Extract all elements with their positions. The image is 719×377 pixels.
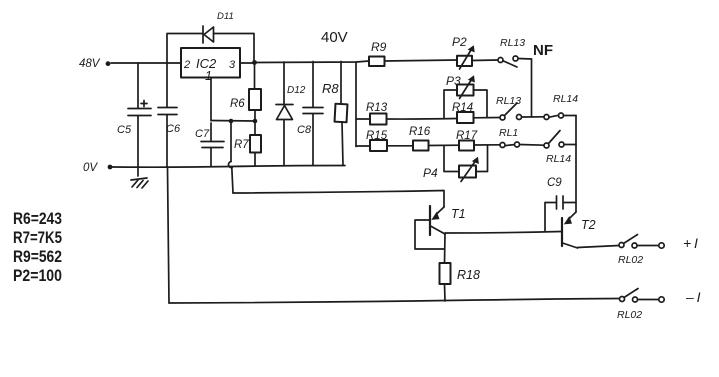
node 48V terminal [106, 61, 111, 66]
wire R16 to R17 [429, 144, 460, 146]
svg-text:R18: R18 [457, 268, 480, 282]
svg-text:P3: P3 [446, 74, 461, 88]
wire R17 to RL1 [474, 144, 500, 146]
node adj junction [229, 119, 234, 124]
relay contact RL14 row3 [544, 143, 549, 148]
svg-text:40V: 40V [321, 29, 348, 46]
svg-text:D12: D12 [287, 85, 306, 96]
svg-text:48V: 48V [79, 58, 101, 70]
relay contact RL02 top [619, 243, 624, 248]
svg-text:RL02: RL02 [618, 254, 643, 266]
wire R13 to R14 [387, 118, 458, 121]
wire P2 to RL13 contact [472, 59, 498, 62]
wire IC2 pin1 down [210, 78, 212, 121]
node R6 R7 junction [253, 119, 258, 124]
relay contact RL13 row1 [498, 58, 503, 63]
wire IC2 output to junction [240, 62, 254, 64]
wire bottom rail [169, 299, 620, 304]
svg-text:RL13: RL13 [500, 37, 525, 49]
capacitor C5 [137, 63, 139, 108]
potentiometer P3 loop [444, 90, 457, 118]
resistor R13 [370, 114, 387, 125]
wire RL13 to RL14 row2 [522, 116, 544, 118]
node terminal -I [659, 297, 664, 302]
svg-text:+ I: + I [683, 235, 698, 251]
svg-text:1: 1 [205, 69, 212, 83]
wire row3 left [356, 145, 370, 147]
potentiometer P4 loop [444, 146, 459, 172]
svg-text:RL1: RL1 [499, 127, 518, 139]
svg-text:R16: R16 [409, 126, 431, 138]
svg-text:C5: C5 [117, 124, 132, 136]
wire D11 left branch [167, 34, 203, 63]
svg-text:– I: – I [685, 289, 701, 305]
node 0V terminal [108, 165, 113, 170]
svg-text:R7=7K5: R7=7K5 [13, 229, 62, 247]
svg-text:RL13: RL13 [496, 95, 521, 107]
svg-text:R6: R6 [230, 98, 245, 110]
svg-text:R6=243: R6=243 [13, 210, 62, 228]
wire row2 left [356, 118, 370, 120]
wire adj link [211, 120, 255, 123]
svg-text:R7: R7 [234, 139, 249, 151]
wire RL14 row3 to right vertical [564, 144, 576, 146]
transistor T2 [569, 212, 576, 219]
wire T1 emitter feed [233, 191, 444, 208]
svg-text:C8: C8 [297, 124, 312, 136]
svg-text:R17: R17 [456, 130, 478, 142]
regulator IC2 [181, 48, 240, 78]
svg-text:P2=100: P2=100 [13, 267, 62, 285]
wire T2 collector to RL02 [578, 246, 620, 248]
svg-text:P2: P2 [452, 35, 467, 49]
node terminal +I [659, 243, 664, 248]
wire mid-section left vertical [355, 62, 357, 147]
svg-text:C9: C9 [547, 177, 562, 189]
wire R14 to RL13 row2 [474, 117, 501, 119]
svg-text:R8: R8 [322, 81, 339, 96]
diode D12 [283, 62, 285, 104]
svg-text:D11: D11 [217, 11, 234, 22]
svg-text:R15: R15 [366, 130, 388, 142]
capacitor C9 [545, 203, 556, 231]
resistor R16 [413, 141, 429, 151]
capacitor C6 [166, 64, 168, 107]
svg-text:RL14: RL14 [546, 153, 571, 165]
resistor R6 [254, 65, 256, 89]
wire crossing hop [230, 123, 232, 162]
svg-text:RL14: RL14 [553, 93, 578, 105]
wire right vertical down to T2 [575, 116, 577, 213]
wire NF corner down [531, 59, 533, 117]
resistor R7 [254, 123, 256, 135]
relay contact RL02 bottom [620, 297, 625, 302]
resistor R8 [340, 62, 342, 105]
svg-text:RL02: RL02 [617, 309, 642, 321]
resistor R17 [459, 141, 474, 151]
potentiometer P2 [457, 56, 472, 66]
wire R9 to P2 [385, 60, 458, 61]
wire 0V rail [112, 166, 345, 168]
ground [137, 167, 139, 176]
svg-text:2: 2 [183, 59, 190, 71]
resistor R9 [369, 57, 385, 67]
svg-text:R13: R13 [366, 102, 388, 114]
relay contact RL1 [500, 143, 505, 148]
wire left drop to bottom rail [168, 168, 170, 303]
wire D11 to output junction [214, 34, 255, 62]
svg-text:3: 3 [229, 59, 236, 71]
wire RL13 to NF corner [519, 58, 532, 61]
svg-text:P4: P4 [423, 166, 438, 180]
svg-text:R9=562: R9=562 [13, 248, 62, 266]
wire R15 to R16 [387, 145, 413, 147]
svg-text:R14: R14 [452, 102, 473, 114]
svg-text:T1: T1 [451, 207, 466, 221]
relay contact RL13 row2 [500, 115, 505, 120]
transistor T1 [437, 207, 444, 214]
wire T2 base from T1 [445, 232, 561, 234]
wire top rail to R9 [254, 61, 369, 63]
wire 48V rail to IC2 [111, 62, 181, 64]
svg-text:NF: NF [533, 42, 553, 59]
resistor R14 [457, 112, 474, 123]
capacitor C7 [210, 123, 212, 141]
capacitor C8 [312, 62, 314, 108]
node junction IC2 output [252, 60, 257, 65]
svg-text:R9: R9 [371, 40, 387, 54]
wire T1 collector down to R18 [444, 234, 447, 263]
svg-text:T2: T2 [581, 218, 596, 232]
resistor R15 [370, 140, 387, 151]
relay contact RL14 row2 [544, 115, 549, 120]
wire RL14 to right vertical [564, 115, 576, 117]
wire RL1 to RL14 row3 [520, 144, 544, 147]
svg-text:0V: 0V [83, 162, 98, 174]
svg-text:C6: C6 [166, 123, 181, 135]
resistor R18 [440, 263, 451, 284]
diode D11 [202, 26, 204, 43]
svg-text:C7: C7 [195, 128, 210, 140]
